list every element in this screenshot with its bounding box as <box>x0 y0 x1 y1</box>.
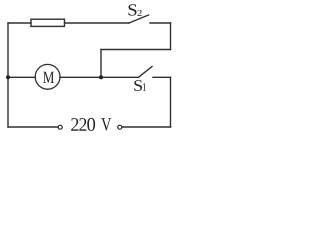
wire S2 right contact to top-right corner <box>150 22 171 24</box>
label S1 <box>0 0 178 138</box>
wire right vertical (bottom) <box>170 77 172 127</box>
node junction dot A (left) <box>6 75 10 79</box>
resistor R (unlabeled box) <box>31 19 65 26</box>
label S2 <box>0 0 178 138</box>
wire right vertical (S2 branch) <box>170 23 172 50</box>
wire vertical down to middle-branch junction <box>100 50 102 78</box>
wire middle: junction to motor <box>8 76 35 78</box>
value label 220 V <box>0 0 178 138</box>
wire S2 loop bottom horizontal <box>101 49 171 51</box>
wire resistor to S2 left contact <box>65 22 130 24</box>
wire left vertical <box>7 23 9 127</box>
wire bottom left segment <box>8 126 58 128</box>
motor U1 circle <box>35 64 60 89</box>
switch S2 blade <box>129 15 149 23</box>
wire S1 right contact to right edge <box>153 76 171 78</box>
switch S1 blade <box>139 67 153 78</box>
terminal right (open circle) <box>118 125 122 129</box>
wire bottom right segment <box>122 126 170 128</box>
motor label M <box>0 0 178 138</box>
node junction dot B (middle) <box>99 75 103 79</box>
terminal left (open circle) <box>58 125 62 129</box>
wire top-left horizontal <box>8 22 31 24</box>
wire motor to S1 left contact <box>60 76 139 78</box>
